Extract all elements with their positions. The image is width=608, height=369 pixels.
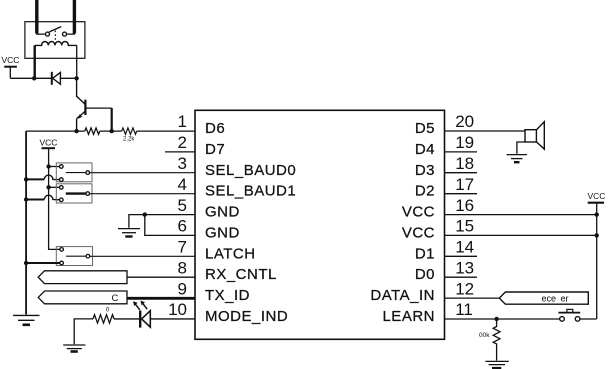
wire pin 16 to VCC	[445, 214, 597, 216]
pin 2 stub	[165, 151, 195, 153]
wire hop over VCC rail to S2 bottom	[26, 199, 44, 201]
wire LED gnd stem	[74, 319, 93, 344]
svg-text:VCC: VCC	[2, 55, 20, 65]
svg-text:GND: GND	[205, 204, 240, 221]
wire coil left to VCC node	[34, 45, 36, 78]
ground (LED)	[63, 344, 85, 346]
svg-text:15: 15	[455, 217, 474, 236]
relay switch contact circle left	[46, 32, 50, 36]
svg-text:D5: D5	[415, 120, 435, 137]
svg-text:VCC: VCC	[402, 224, 435, 241]
svg-text:D4: D4	[415, 141, 435, 158]
svg-text:D0: D0	[415, 266, 435, 283]
svg-text:GND: GND	[205, 224, 240, 241]
wire pin 20 to speaker	[445, 130, 526, 132]
svg-text:9: 9	[178, 279, 187, 298]
relay coil L1	[35, 42, 77, 46]
junction left rail to S1 hop	[24, 177, 28, 181]
wire VCC to coil node	[10, 77, 34, 79]
pin 13 stub	[445, 276, 478, 278]
wire pin6 up to pin5	[145, 215, 195, 236]
wire base down to R1 node	[111, 108, 113, 131]
svg-text:13: 13	[455, 258, 474, 277]
junction emitter on pin1 wire	[74, 129, 78, 133]
svg-text:12: 12	[455, 279, 474, 298]
wire S3 to pin 7	[90, 255, 195, 257]
svg-text:2: 2	[178, 133, 187, 152]
wire node to diode	[34, 77, 51, 79]
svg-text:er: er	[561, 293, 569, 303]
relay contact lead right	[73, 0, 76, 34]
svg-text:6: 6	[178, 217, 187, 236]
svg-text:7: 7	[178, 238, 187, 257]
switch S2 (SEL_BAUD1) box	[56, 184, 92, 203]
wire R2 to pin 1	[137, 130, 195, 132]
resistor R1 (base-emitter)	[85, 128, 100, 134]
svg-text:17: 17	[455, 175, 474, 194]
ground (R4)	[485, 360, 508, 362]
svg-text:D1: D1	[415, 245, 435, 262]
wire speaker to gnd	[517, 142, 525, 154]
wire coil right down	[76, 45, 78, 78]
switch S3 (LATCH) box	[56, 247, 92, 266]
wire pin 12 to flag	[445, 297, 500, 299]
wire emitter down	[76, 118, 78, 131]
svg-text:5: 5	[178, 196, 187, 215]
pin numbers and labels	[168, 112, 187, 319]
svg-text:ece: ece	[542, 293, 557, 303]
VCC rail down to switches	[49, 148, 60, 249]
junction base on pin1 wire	[110, 129, 114, 133]
wire flag to pin 8	[127, 276, 195, 278]
pin 18 stub	[445, 172, 478, 174]
ground (pins 5/6)	[118, 228, 140, 230]
wire pin 15 to VCC	[445, 234, 597, 236]
svg-text:C: C	[112, 293, 119, 304]
junction pin5/pin6 gnd	[143, 212, 147, 216]
svg-text:11: 11	[455, 300, 473, 319]
svg-text:4: 4	[178, 175, 187, 194]
junction pin15/VCC	[595, 233, 599, 237]
speaker SP1	[525, 130, 536, 142]
transistor Q1 base bar	[84, 100, 86, 115]
junction pin16/VCC	[595, 212, 599, 216]
junction pin11 / R4	[494, 317, 498, 321]
transistor Q1 emitter arrow	[78, 114, 83, 119]
ground (left rail)	[13, 314, 40, 316]
svg-text:DATA_IN: DATA_IN	[370, 287, 435, 304]
svg-text:VCC: VCC	[588, 191, 606, 201]
resistor R2 2.2k	[122, 128, 137, 134]
svg-text:20: 20	[455, 112, 474, 131]
pushbutton SW4 (LEARN)	[560, 317, 565, 322]
transistor Q1 collector wire	[77, 78, 85, 104]
wire left rail to S3 bottom	[26, 262, 60, 264]
junction VCC rail to S2	[46, 185, 50, 189]
wire pin 5 GND	[145, 214, 195, 216]
svg-text:3: 3	[178, 154, 187, 173]
wire flag to pin 9 (thick)	[127, 297, 195, 300]
wire R1 to R2	[100, 130, 122, 132]
svg-text:19: 19	[455, 133, 474, 152]
wire contact left to switch	[37, 33, 46, 36]
svg-text:LATCH: LATCH	[205, 245, 256, 262]
relay contact lead left	[35, 0, 38, 34]
net flag TX_ID	[38, 291, 127, 304]
junction left rail to S2 hop	[24, 197, 28, 201]
svg-text:RX_CNTL: RX_CNTL	[205, 266, 277, 283]
svg-text:SEL_BAUD1: SEL_BAUD1	[205, 183, 296, 200]
wire VCC rail to S2 top	[49, 186, 60, 188]
svg-text:10: 10	[168, 300, 187, 319]
svg-text:VCC: VCC	[40, 137, 58, 147]
svg-text:16: 16	[455, 196, 474, 215]
wire pin 11 to button	[445, 318, 560, 320]
svg-text:18: 18	[455, 154, 474, 173]
net flag Receiver (DATA_IN)	[499, 292, 588, 304]
svg-text:LEARN: LEARN	[382, 308, 435, 325]
svg-text:0: 0	[106, 306, 110, 313]
svg-text:MODE_IND: MODE_IND	[205, 308, 288, 325]
svg-text:8: 8	[178, 258, 187, 277]
wire S1 to pin 3	[90, 172, 196, 174]
pin 17 stub	[445, 193, 478, 195]
svg-text:2.2k: 2.2k	[123, 137, 135, 143]
svg-text:14: 14	[455, 238, 474, 257]
relay switch lever	[49, 27, 61, 32]
svg-text:1: 1	[178, 112, 187, 131]
diode D1 triangle	[53, 72, 61, 84]
LED emission arrows	[135, 303, 140, 309]
wire hop over VCC rail to S1 bottom	[26, 178, 44, 180]
junction left rail to S3	[24, 261, 28, 265]
resistor R3	[93, 315, 114, 323]
svg-text:D6: D6	[205, 120, 225, 137]
LED D2 cathode bar	[139, 311, 141, 328]
wire contact right to switch	[67, 33, 75, 36]
svg-text:SEL_BAUD0: SEL_BAUD0	[205, 162, 296, 179]
relay switch contact circle right	[63, 32, 67, 36]
svg-text:D7: D7	[205, 141, 225, 158]
wire button to VCC rail	[580, 318, 597, 320]
VCC rail right	[596, 203, 598, 319]
junction coil-left / VCC	[32, 76, 36, 80]
transistor Q1 emitter	[77, 112, 85, 119]
relay actuator dotted link	[54, 31, 56, 42]
svg-text:D3: D3	[415, 162, 435, 179]
svg-text:VCC: VCC	[402, 204, 435, 221]
wire left-rail top to emitter node (pin1 row)	[26, 130, 85, 132]
resistor R4 100k vertical	[493, 319, 500, 361]
wire gnd stem pins 5/6	[129, 215, 145, 228]
relay K1 body	[25, 22, 85, 59]
junction coil-right / collector	[74, 76, 78, 80]
net flag RX_CNTL	[38, 271, 127, 284]
switch S1 (SEL_BAUD0) box	[56, 163, 92, 182]
junction VCC rail to S1	[46, 164, 50, 168]
diode D1 (flyback) cathode bar	[51, 72, 53, 85]
wire VCC rail to S1 top	[49, 166, 60, 168]
transistor Q1 base wire	[85, 107, 111, 109]
svg-text:D2: D2	[415, 183, 435, 200]
pin 14 stub	[445, 255, 478, 257]
ground (speaker)	[507, 154, 527, 156]
wire R3 to LED	[114, 318, 139, 320]
wire S2 to pin 4	[90, 193, 196, 195]
wire LED to pin 10	[150, 318, 195, 320]
wire diode to collector node	[60, 77, 76, 79]
svg-text:00k: 00k	[479, 332, 490, 339]
LED D2 triangle	[142, 311, 151, 327]
IC U1 body	[195, 110, 445, 339]
svg-text:TX_ID: TX_ID	[205, 287, 250, 304]
left ground rail	[25, 131, 27, 314]
pin 19 stub	[445, 151, 478, 153]
